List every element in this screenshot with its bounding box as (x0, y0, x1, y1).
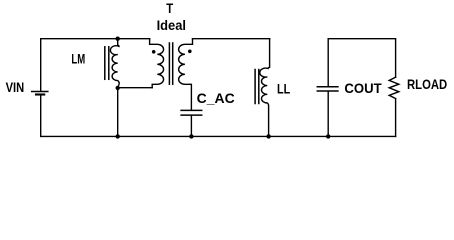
resistor RLOAD (389, 77, 399, 136)
transformer T secondary winding (179, 39, 193, 110)
wire: bottom rail (VIN to RLOAD) (41, 135, 396, 137)
node: LM bottom junction (116, 86, 120, 90)
node: LM ground rail junction (116, 134, 120, 138)
node: LL bottom junction (266, 134, 270, 138)
inductor LL (255, 39, 270, 137)
svg-text:Ideal: Ideal (157, 18, 186, 33)
wire: secondary top rail to LL (193, 38, 270, 40)
wire: top rail, VIN corner to transformer primary step (41, 39, 150, 91)
node: COUT bottom junction (326, 134, 330, 138)
svg-text:LM: LM (71, 51, 85, 66)
svg-text:COUT: COUT (344, 81, 382, 96)
battery VIN (32, 92, 48, 137)
node: C_AC bottom junction (189, 134, 193, 138)
transformer core (169, 43, 172, 84)
svg-text:VIN: VIN (6, 80, 25, 95)
capacitor COUT (317, 87, 338, 137)
inductor LM (105, 39, 119, 88)
capacitor C_AC (181, 110, 202, 136)
polarity dot primary (152, 50, 156, 54)
svg-text:LL: LL (277, 82, 290, 97)
wire: primary bottom return (118, 87, 153, 89)
node: LM top junction (116, 37, 120, 41)
transformer T primary winding (150, 39, 164, 88)
LL core bars (254, 70, 256, 104)
svg-text:RLOAD: RLOAD (407, 77, 447, 92)
polarity dot secondary (188, 50, 192, 54)
wire: LM bottom to ground rail (117, 88, 119, 136)
svg-text:T: T (166, 1, 173, 16)
svg-text:C_AC: C_AC (197, 91, 235, 106)
wire: output loop top rail (328, 39, 395, 86)
LM core bars (104, 47, 106, 80)
